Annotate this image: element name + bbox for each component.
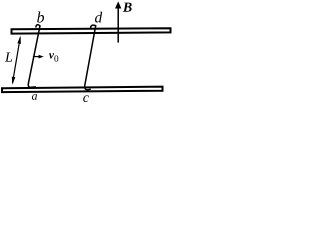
- bottom rail: [2, 87, 163, 93]
- top rail: [12, 28, 171, 33]
- L dimension line: [13, 38, 21, 84]
- L dimension arrowhead bottom: [12, 77, 16, 85]
- label a: [32, 94, 37, 100]
- label d: [95, 12, 102, 23]
- rod ab: [28, 25, 40, 88]
- v0 arrowhead: [39, 55, 44, 59]
- label L: [5, 52, 12, 61]
- v0 arrow: [33, 56, 40, 58]
- B field arrow: [117, 8, 119, 43]
- rod cd: [85, 25, 96, 90]
- B arrowhead: [115, 1, 121, 8]
- label c: [83, 95, 89, 102]
- label b: [37, 11, 44, 22]
- label v0 (v): [49, 53, 54, 58]
- L dimension arrowhead top: [17, 36, 21, 44]
- label v0 (subscript 0): [54, 55, 58, 61]
- label B: [123, 3, 132, 12]
